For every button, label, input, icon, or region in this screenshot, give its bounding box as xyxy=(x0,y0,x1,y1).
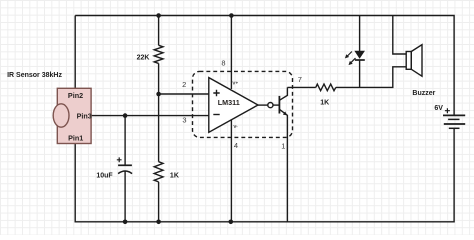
svg-text:Pin2: Pin2 xyxy=(68,91,83,100)
svg-text:3: 3 xyxy=(182,115,186,124)
svg-text:V+: V+ xyxy=(232,81,238,86)
svg-text:1K: 1K xyxy=(320,99,329,106)
svg-text:LM311: LM311 xyxy=(218,98,240,107)
svg-text:Pin1: Pin1 xyxy=(68,134,83,143)
svg-text:V-: V- xyxy=(233,124,238,129)
svg-text:10uF: 10uF xyxy=(96,172,113,179)
svg-text:IR Sensor 38kHz: IR Sensor 38kHz xyxy=(7,72,62,79)
svg-text:1: 1 xyxy=(281,142,285,151)
svg-text:1K: 1K xyxy=(170,173,179,180)
svg-text:8: 8 xyxy=(221,59,225,68)
svg-text:7: 7 xyxy=(298,75,302,84)
svg-text:2: 2 xyxy=(182,80,186,89)
svg-text:Buzzer: Buzzer xyxy=(412,90,435,97)
svg-text:Pin3: Pin3 xyxy=(77,112,92,121)
svg-text:4: 4 xyxy=(234,141,238,150)
svg-text:6V: 6V xyxy=(434,105,443,112)
svg-text:22K: 22K xyxy=(137,55,150,62)
